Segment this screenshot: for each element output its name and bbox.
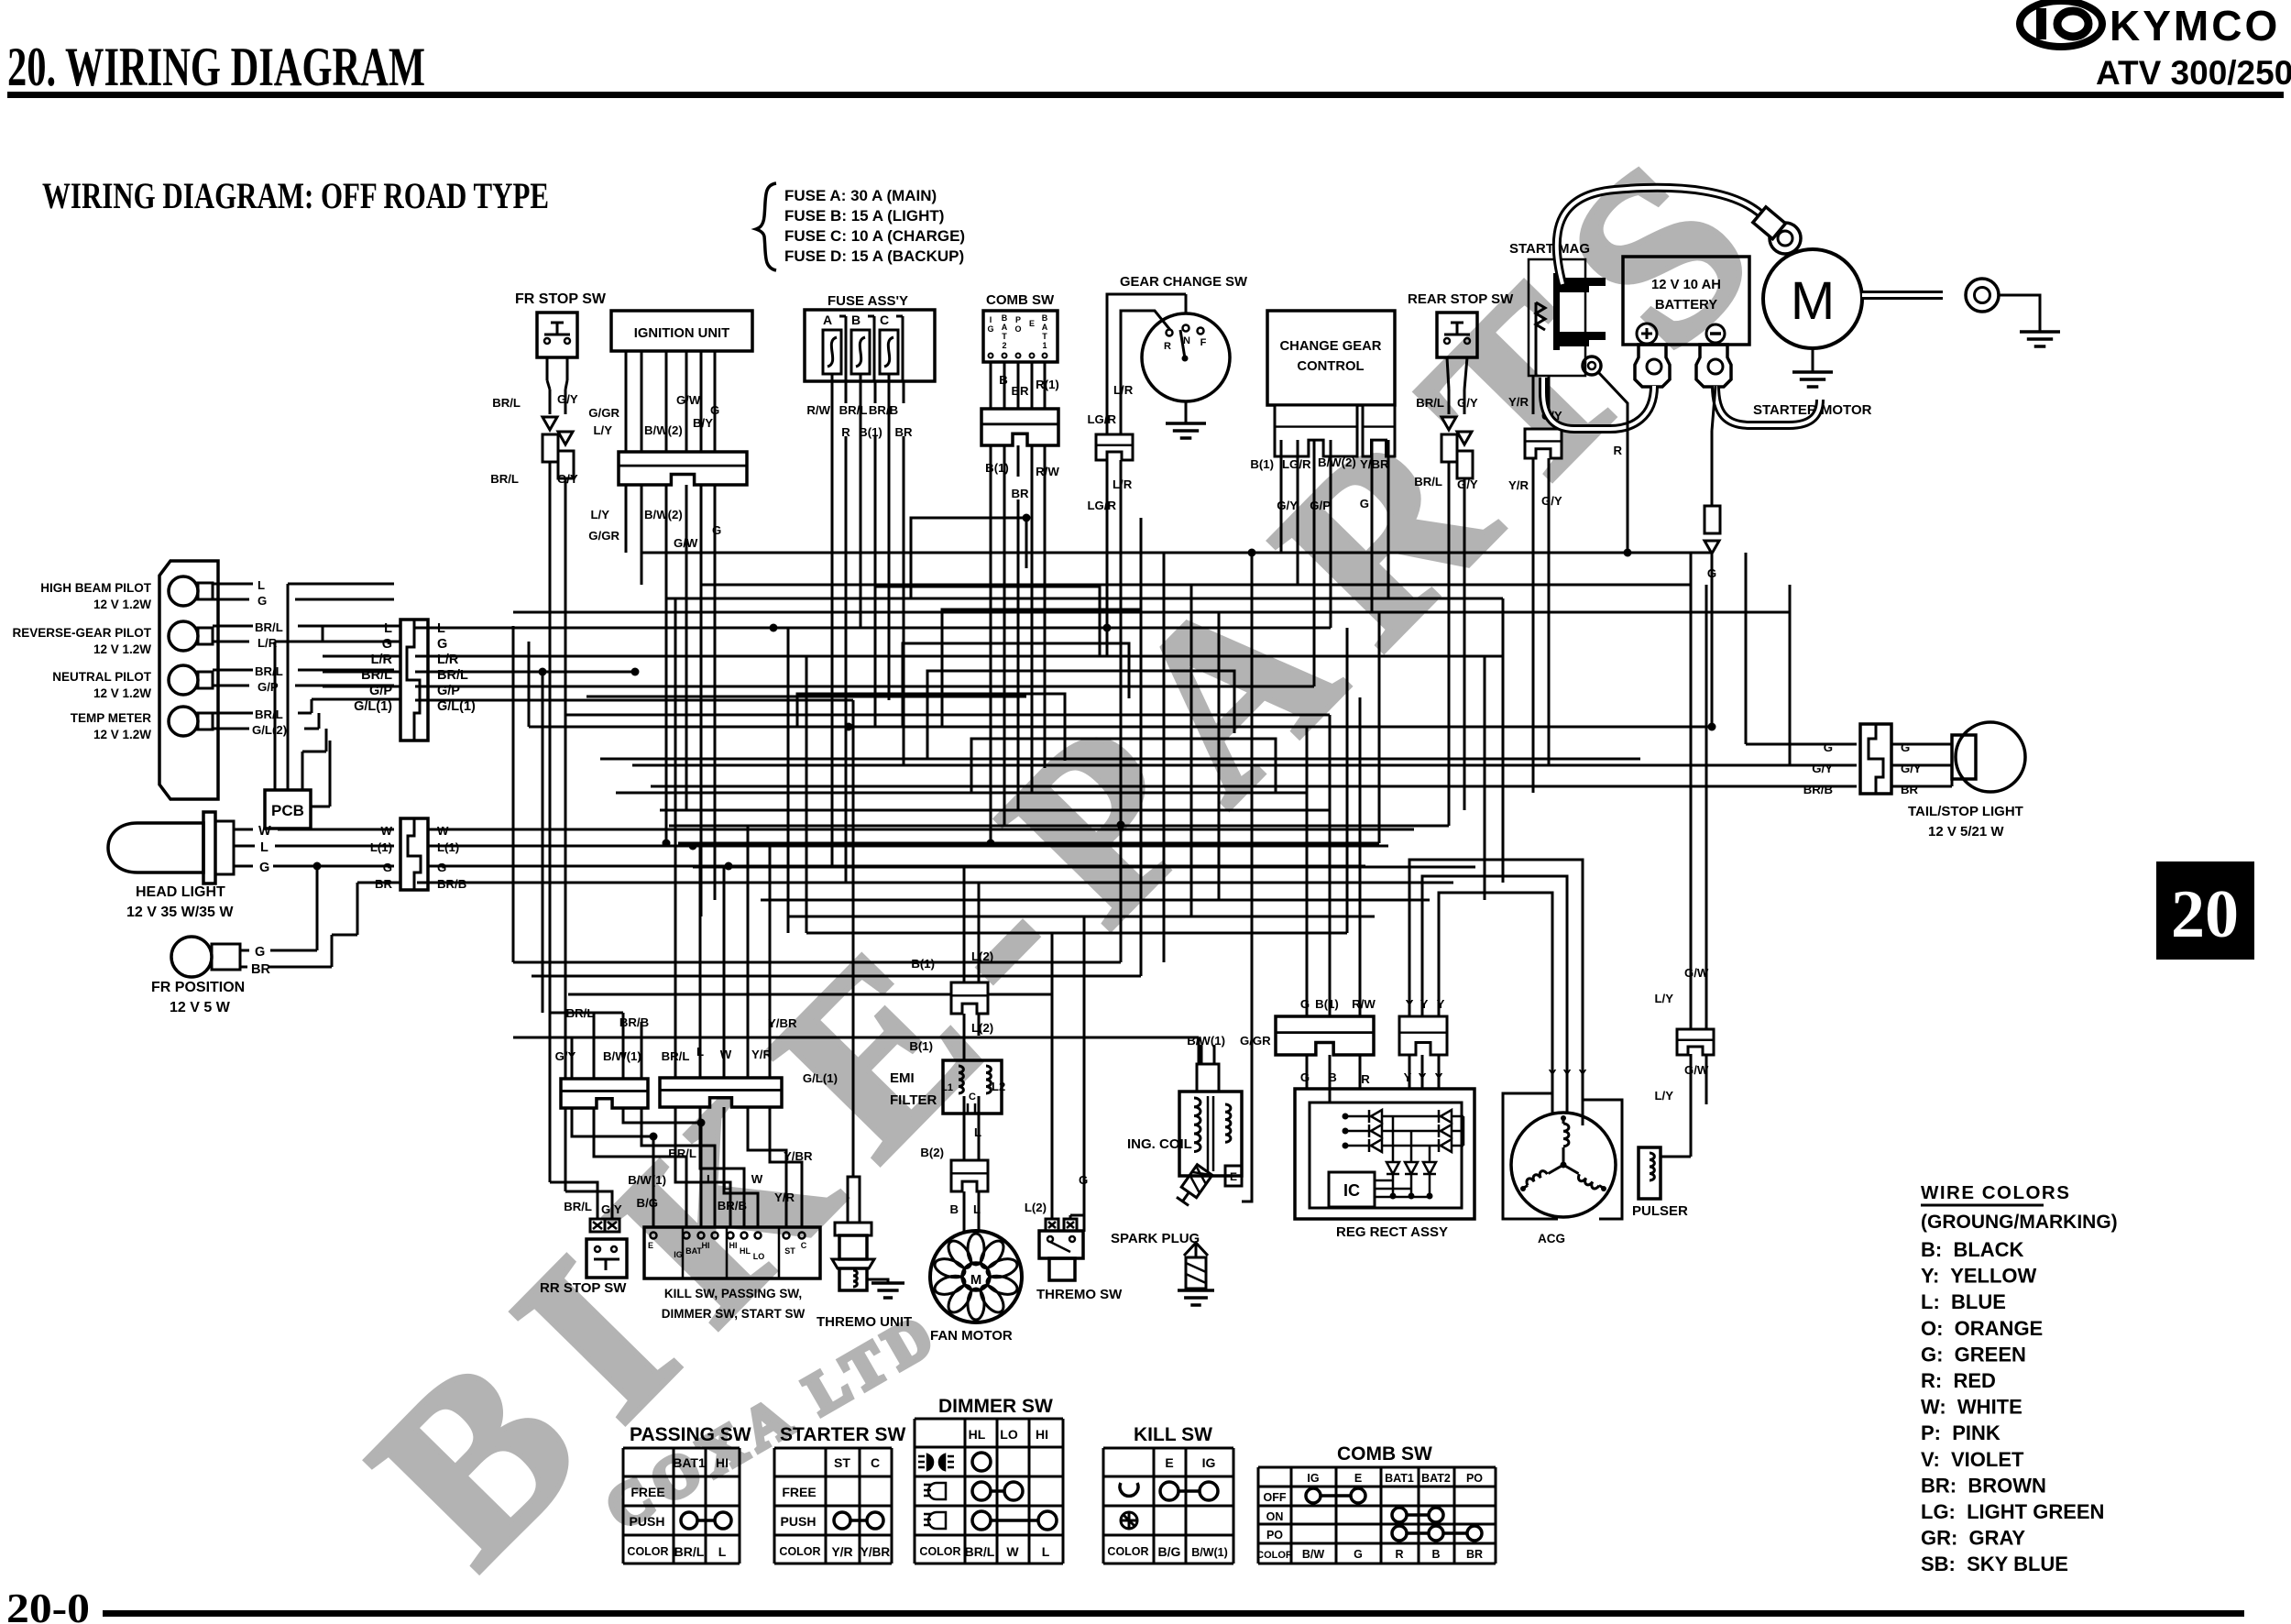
wire (512, 626, 515, 962)
wire (1163, 553, 1166, 962)
svg-text:12 V 35 W/35 W: 12 V 35 W/35 W (126, 905, 234, 920)
wire (860, 403, 862, 628)
battery box (1623, 257, 1749, 345)
svg-text:ACG: ACG (1538, 1232, 1565, 1245)
svg-text:G/Y: G/Y (557, 392, 578, 406)
svg-text:HI: HI (729, 1241, 738, 1250)
page number box (2156, 861, 2254, 960)
start mag drops (1532, 480, 1535, 793)
svg-text:B/Y: B/Y (693, 416, 713, 430)
svg-text:LO: LO (753, 1252, 765, 1261)
svg-text:HI: HI (702, 1241, 710, 1250)
svg-text:BR/L: BR/L (668, 1147, 696, 1160)
wire (415, 655, 1503, 658)
svg-text:LG: LIGHT GREEN: LG: LIGHT GREEN (1921, 1500, 2104, 1523)
svg-text:BR: BROWN: BR: BROWN (1921, 1474, 2046, 1497)
svg-text:Y/R: Y/R (751, 1048, 772, 1061)
svg-text:FUSE D: 15 A (BACKUP): FUSE D: 15 A (BACKUP) (784, 247, 964, 265)
svg-text:BR/L: BR/L (662, 1049, 690, 1063)
svg-text:L/Y: L/Y (590, 508, 609, 521)
svg-text:TEMP METER: TEMP METER (71, 711, 152, 725)
svg-text:Y: Y (1419, 1070, 1427, 1084)
thremo unit probe (848, 1177, 860, 1223)
svg-text:L: L (1042, 1544, 1050, 1559)
svg-text:BAT2: BAT2 (1421, 1472, 1451, 1485)
svg-text:BR/L: BR/L (566, 1006, 595, 1020)
svg-text:BR: BR (1901, 783, 1919, 796)
svg-text:B/G: B/G (637, 1196, 658, 1210)
wire (1789, 585, 1792, 765)
wire stair 2 (903, 643, 1129, 727)
svg-text:BR/B: BR/B (869, 403, 898, 417)
svg-text:L/R: L/R (371, 653, 393, 667)
RR stop sw pins (590, 1219, 605, 1232)
connector block left (561, 1079, 648, 1108)
svg-text:E: E (1230, 1170, 1237, 1183)
wire (513, 961, 1121, 964)
kill switch assembly box (644, 1227, 820, 1278)
ACG circle (1511, 1113, 1616, 1217)
gear sw lever (1180, 330, 1185, 358)
rear stop wires down (1447, 357, 1449, 390)
svg-text:COLOR: COLOR (919, 1545, 960, 1558)
wire (1329, 715, 1332, 1016)
gear change sw circle (1142, 313, 1230, 401)
wire stair 4 (797, 694, 1065, 761)
FR stop diodes (543, 417, 557, 430)
battery minus drop with G diode (1712, 386, 1716, 431)
svg-text:Y/BR: Y/BR (860, 1545, 891, 1559)
svg-text:L: BLUE: L: BLUE (1921, 1290, 2006, 1313)
reg IC box (1329, 1172, 1375, 1207)
RR stop sw wires (550, 1182, 597, 1219)
FR stop resistors (543, 434, 558, 462)
watermark (323, 83, 1831, 1612)
svg-text:GR: GRAY: GR: GRAY (1921, 1527, 2025, 1550)
reg rect connector (1276, 1016, 1374, 1055)
wire (1371, 440, 1374, 612)
wire (641, 552, 1712, 554)
wire (1297, 440, 1299, 585)
svg-text:L: L (723, 1179, 730, 1192)
wire (532, 975, 1141, 978)
wire (625, 513, 628, 553)
G/GR wire to coil (1242, 553, 1252, 1202)
svg-text:REAR STOP SW: REAR STOP SW (1408, 291, 1514, 307)
svg-text:G: G (1300, 997, 1310, 1011)
svg-text:G/L(1): G/L(1) (354, 699, 392, 714)
svg-text:B(1): B(1) (909, 1039, 933, 1053)
REG RECT ASSY box (1295, 1089, 1474, 1219)
wire (806, 656, 808, 933)
svg-text:COLOR: COLOR (1256, 1550, 1293, 1561)
svg-text:COLOR: COLOR (1107, 1545, 1148, 1558)
svg-text:KILL SW, PASSING SW,: KILL SW, PASSING SW, (664, 1287, 802, 1300)
gear sw wire A L/R (1107, 294, 1186, 434)
svg-text:REVERSE-GEAR PILOT: REVERSE-GEAR PILOT (12, 626, 151, 640)
svg-text:F: F (1200, 337, 1207, 348)
svg-text:L: L (696, 1045, 704, 1059)
svg-text:BR/L: BR/L (492, 396, 521, 410)
svg-text:B(1): B(1) (1250, 457, 1274, 471)
wire (674, 598, 677, 1078)
wire (1017, 499, 1020, 810)
battery plus (1637, 324, 1657, 344)
wire (1190, 585, 1193, 916)
wire (415, 627, 1331, 630)
svg-text:FILTER: FILTER (890, 1092, 937, 1108)
wire (542, 672, 544, 1013)
battery minus (1706, 324, 1725, 343)
svg-text:P: P (1015, 315, 1021, 324)
KYMCO logo (2020, 1, 2102, 47)
start mag contacts (1560, 278, 1606, 292)
rear stop resistors (1441, 434, 1457, 462)
reg diodes (1345, 1115, 1463, 1118)
svg-text:W: W (437, 824, 449, 838)
svg-text:BR/L: BR/L (437, 668, 468, 683)
svg-text:W: W (258, 824, 271, 839)
svg-text:FAN MOTOR: FAN MOTOR (930, 1328, 1013, 1344)
svg-text:Y: YELLOW: Y: YELLOW (1921, 1265, 2037, 1288)
pilot lamp 3 (169, 665, 198, 695)
comb lower wires (990, 445, 992, 477)
svg-text:L/Y: L/Y (1654, 1089, 1673, 1103)
wire (678, 842, 1379, 845)
svg-text:KYMCO: KYMCO (2110, 2, 2280, 49)
svg-text:N: N (1183, 335, 1190, 346)
svg-text:B: B (999, 373, 1008, 387)
svg-text:FUSE C: 10 A (CHARGE): FUSE C: 10 A (CHARGE) (784, 227, 965, 245)
battery cable to ring (1557, 188, 1767, 284)
svg-text:BR: BR (1011, 487, 1029, 500)
svg-text:BR/L: BR/L (1416, 396, 1444, 410)
ACG coils (1563, 1116, 1569, 1165)
svg-text:B: B (851, 313, 860, 327)
wire (1705, 585, 1708, 1029)
svg-text:E: E (1354, 1472, 1362, 1485)
start mag connector (1525, 429, 1562, 458)
svg-text:B: B (1328, 1070, 1337, 1084)
tail light bulb (1952, 735, 1976, 779)
svg-text:COMB SW: COMB SW (1337, 1443, 1432, 1465)
gear sw wire B LG/R (1121, 311, 1170, 434)
svg-text:L(2): L(2) (971, 1021, 993, 1035)
svg-text:R: R (1164, 341, 1171, 352)
svg-text:A: A (1042, 323, 1048, 332)
svg-text:GEAR CHANGE SW: GEAR CHANGE SW (1120, 275, 1247, 290)
svg-text:W: W (1006, 1544, 1019, 1559)
wire (701, 584, 1691, 587)
wire (888, 403, 891, 700)
wire (990, 477, 992, 843)
svg-text:SB: SKY BLUE: SB: SKY BLUE (1921, 1553, 2068, 1575)
RR stop sw body (586, 1239, 627, 1278)
right ring wire and ground (1999, 295, 2040, 332)
svg-text:W: WHITE: W: WHITE (1921, 1396, 2022, 1419)
pilot lamp 2 (169, 621, 198, 651)
comb sw wires (990, 362, 992, 409)
svg-text:G/W: G/W (676, 393, 701, 407)
reg SCRs (1387, 1162, 1399, 1174)
fuse legend brace (756, 183, 776, 270)
ING coil box (1179, 1092, 1242, 1176)
svg-text:L/R: L/R (1113, 477, 1133, 491)
svg-text:SPARK PLUG: SPARK PLUG (1111, 1231, 1200, 1246)
pilot lamp 4 (169, 707, 198, 736)
wire (903, 436, 905, 765)
headlight bulb (108, 823, 203, 872)
svg-text:IC: IC (1343, 1181, 1360, 1200)
wire (1051, 933, 1054, 1219)
svg-text:Y: Y (1437, 997, 1445, 1011)
svg-text:BR: BR (251, 962, 270, 977)
svg-text:M: M (1791, 271, 1835, 331)
wire (1484, 656, 1486, 900)
svg-text:ST: ST (784, 1246, 795, 1256)
comb sw box (983, 311, 1058, 362)
svg-text:PUSH: PUSH (630, 1514, 665, 1529)
ING coil connector (1197, 1064, 1219, 1092)
PCB box (265, 790, 311, 828)
svg-text:B/W(1): B/W(1) (1187, 1034, 1225, 1048)
FR stop long drops (549, 462, 552, 1182)
wire (787, 628, 790, 933)
PCB wires (274, 642, 277, 790)
junction dots (539, 668, 547, 676)
starter motor ground (1812, 348, 1814, 372)
svg-text:P: PINK: P: PINK (1921, 1421, 2001, 1444)
cable from plus post (1543, 378, 1654, 429)
EMI lower chain (963, 1114, 966, 1160)
tail light connector (1860, 724, 1891, 794)
wire (641, 1022, 643, 1079)
svg-text:Y/R: Y/R (1508, 478, 1529, 492)
wire (1378, 612, 1381, 843)
svg-text:COLOR: COLOR (627, 1545, 668, 1558)
svg-text:B/W(2): B/W(2) (1318, 455, 1356, 469)
svg-text:OFF: OFF (1264, 1491, 1287, 1504)
svg-text:B/W(2): B/W(2) (644, 508, 683, 521)
svg-text:ST: ST (834, 1455, 850, 1470)
svg-text:BAT1: BAT1 (1385, 1472, 1414, 1485)
wire (415, 699, 853, 702)
start mag wires (1532, 376, 1535, 414)
fuse assy wires down (831, 381, 834, 403)
svg-text:B/W(1): B/W(1) (1191, 1546, 1228, 1559)
svg-text:C: C (801, 1241, 807, 1250)
svg-text:L: L (707, 1172, 714, 1186)
wire (600, 758, 1640, 761)
fuse assy box (805, 310, 935, 381)
wire (660, 809, 1330, 812)
svg-text:12 V 5 W: 12 V 5 W (170, 1000, 231, 1015)
svg-text:R/W: R/W (806, 403, 830, 417)
svg-text:R: R (1613, 444, 1622, 457)
mid loop (942, 609, 1141, 727)
svg-text:20-0: 20-0 (6, 1585, 90, 1624)
svg-text:EMI: EMI (890, 1070, 915, 1086)
wire (831, 403, 834, 867)
svg-text:BR/L: BR/L (255, 620, 283, 634)
comb connector (981, 409, 1058, 445)
Y connector (1399, 1016, 1447, 1055)
svg-text:T: T (1042, 332, 1047, 341)
svg-text:E: E (1165, 1455, 1173, 1470)
svg-text:BR/B: BR/B (1803, 783, 1833, 796)
footer rule (103, 1610, 2244, 1617)
svg-text:Y: Y (1579, 1067, 1587, 1081)
kill harness jog wires (572, 1108, 653, 1227)
connector block right (660, 1078, 782, 1107)
svg-text:LG/R: LG/R (1087, 499, 1116, 512)
wire (693, 866, 1475, 869)
svg-text:Y: Y (1435, 1070, 1443, 1084)
svg-text:L/R: L/R (1113, 383, 1134, 397)
svg-text:Y/R: Y/R (1508, 395, 1529, 409)
wire (529, 726, 1712, 729)
gear sw lower wires (1106, 460, 1109, 656)
wire stair 5 (971, 739, 1276, 793)
wire (528, 642, 531, 727)
svg-text:Y/R: Y/R (774, 1191, 795, 1204)
svg-text:LG/R: LG/R (1087, 412, 1116, 426)
svg-text:B(1): B(1) (911, 957, 935, 971)
svg-text:Y/BR: Y/BR (1360, 457, 1389, 471)
svg-text:C: C (969, 1092, 976, 1103)
svg-text:B: BLACK: B: BLACK (1921, 1238, 2024, 1261)
svg-text:R(1): R(1) (1036, 378, 1059, 391)
gear sw ground wire (1185, 294, 1188, 313)
EMI filter box (943, 1060, 1002, 1114)
ACG enclosure (1503, 1093, 1558, 1219)
spark plug 2 (1184, 1243, 1208, 1289)
svg-text:G: G (437, 637, 447, 652)
svg-text:R: R (1361, 1072, 1370, 1086)
FR position bulb (171, 937, 212, 977)
svg-text:FUSE ASS'Y: FUSE ASS'Y (828, 293, 908, 309)
svg-text:L(1): L(1) (437, 840, 459, 854)
svg-text:Y: Y (1549, 1067, 1557, 1081)
wire (616, 792, 1307, 795)
svg-text:R/W: R/W (1036, 465, 1059, 478)
top right loop (911, 518, 1026, 598)
svg-text:C: C (880, 313, 889, 327)
svg-text:BR/L: BR/L (965, 1544, 995, 1559)
wire (747, 825, 750, 1078)
wire (641, 513, 643, 585)
svg-text:L2: L2 (992, 1080, 1005, 1093)
wire (1690, 553, 1693, 1029)
FR stop sw wires down (546, 357, 549, 380)
change gear connectors (1275, 405, 1357, 456)
dimmer icons (918, 1454, 954, 1529)
wire (978, 883, 981, 982)
svg-text:12 V 1.2W: 12 V 1.2W (93, 642, 151, 656)
svg-text:WIRING DIAGRAM: OFF ROAD TYPE: WIRING DIAGRAM: OFF ROAD TYPE (42, 175, 549, 216)
svg-text:G/Y: G/Y (1901, 762, 1922, 775)
svg-text:L/Y: L/Y (593, 423, 612, 437)
svg-text:G: G (1360, 497, 1369, 510)
wire (723, 866, 726, 1078)
start mag small ring (1583, 357, 1601, 375)
svg-text:PCB: PCB (271, 802, 304, 819)
svg-text:REG RECT ASSY: REG RECT ASSY (1336, 1224, 1448, 1240)
pilot short wires (213, 583, 253, 586)
wire (699, 846, 702, 1078)
svg-text:BR/L: BR/L (255, 664, 283, 678)
svg-text:HI: HI (716, 1455, 729, 1470)
svg-text:B/W(1): B/W(1) (603, 1049, 641, 1063)
svg-text:W: W (720, 1048, 732, 1061)
svg-text:PO: PO (1266, 1529, 1283, 1542)
svg-text:G/GR: G/GR (1240, 1034, 1271, 1048)
IGNITION UNIT box (611, 311, 752, 351)
wire (665, 513, 668, 843)
svg-text:G/W: G/W (1684, 966, 1709, 980)
svg-text:ATV 300/250: ATV 300/250 (2096, 54, 2291, 92)
wire (1031, 477, 1034, 793)
wire (1198, 1037, 1200, 1064)
svg-text:L: L (384, 621, 392, 636)
wire (565, 714, 1330, 717)
svg-text:W: W (381, 824, 393, 838)
cable minus to starter (1716, 386, 1820, 425)
ring terminal right (1966, 279, 1999, 312)
svg-text:NEUTRAL PILOT: NEUTRAL PILOT (52, 670, 152, 684)
svg-text:W: W (751, 1172, 763, 1186)
svg-text:G/Y: G/Y (1812, 762, 1833, 775)
wire (1346, 628, 1349, 933)
svg-text:PO: PO (1466, 1472, 1483, 1485)
svg-text:A: A (823, 313, 832, 327)
svg-text:FR STOP SW: FR STOP SW (515, 291, 607, 307)
svg-text:G: G (258, 594, 267, 608)
svg-text:B(1): B(1) (1315, 997, 1339, 1011)
fuse leads (845, 316, 848, 381)
svg-text:M: M (970, 1273, 981, 1288)
svg-text:B(2): B(2) (920, 1146, 944, 1159)
svg-text:12 V 10 AH: 12 V 10 AH (1651, 278, 1721, 292)
wire (1280, 440, 1283, 553)
svg-text:THREMO UNIT: THREMO UNIT (817, 1314, 912, 1330)
svg-text:12 V 1.2W: 12 V 1.2W (93, 686, 151, 700)
rear stop diodes (1441, 417, 1456, 430)
svg-text:L/R: L/R (437, 653, 459, 667)
wire (571, 1037, 574, 1079)
svg-text:G/Y: G/Y (1457, 396, 1478, 410)
wire (845, 436, 848, 883)
svg-text:BAT1: BAT1 (673, 1455, 706, 1470)
svg-text:B: B (1002, 313, 1008, 323)
wire Y loop 3 (1439, 893, 1552, 1111)
svg-text:20. WIRING DIAGRAM: 20. WIRING DIAGRAM (7, 37, 425, 97)
svg-text:G: G (1079, 1173, 1088, 1187)
headlight wires (234, 828, 253, 831)
wire (700, 513, 703, 916)
FR position risers (316, 866, 319, 950)
svg-text:L(2): L(2) (971, 949, 993, 963)
wire (1745, 553, 1748, 727)
starter motor circle (1763, 249, 1862, 348)
reg vertical rails (1392, 1116, 1395, 1196)
tail light rows (1745, 727, 1748, 744)
headlight connector (400, 818, 428, 890)
svg-text:B/W(2): B/W(2) (644, 423, 683, 437)
svg-text:HL: HL (740, 1246, 751, 1256)
svg-text:BAT: BAT (685, 1246, 702, 1256)
wire (1003, 477, 1006, 826)
